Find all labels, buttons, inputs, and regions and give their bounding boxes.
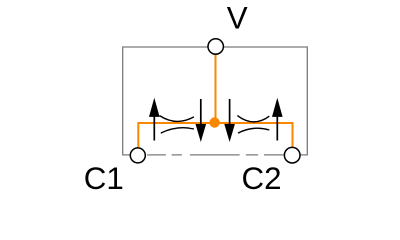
restrictor right (venturi arcs) (237, 116, 269, 134)
svg-text:C1: C1 (84, 161, 124, 196)
flow arrow up (left) (149, 98, 160, 141)
flow arrow down (right of junction) (224, 99, 235, 142)
dashed bottom line between ports C1 and C2 (147, 154, 284, 156)
port C1 circle (130, 148, 145, 163)
svg-text:V: V (227, 1, 248, 36)
flow arrow down (left of junction) (196, 99, 207, 142)
wire junction to C1 (orange) (138, 123, 210, 147)
port V circle (208, 39, 223, 54)
restrictor left (venturi arcs) (160, 116, 194, 134)
wire junction to C2 (orange) (219, 123, 293, 147)
port C2 circle (284, 147, 300, 163)
node junction dot (209, 117, 219, 127)
wire V to junction (orange) (215, 55, 217, 118)
valve body frame (123, 47, 308, 155)
svg-text:C2: C2 (242, 161, 282, 196)
flow arrow up (right) (272, 98, 283, 141)
